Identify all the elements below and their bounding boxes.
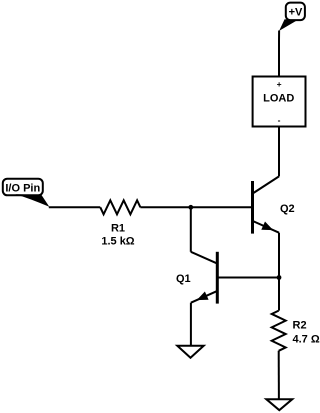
wire R1 to Q2 base: [140, 206, 252, 208]
svg-text:4.7 Ω: 4.7 Ω: [293, 333, 320, 345]
wire Q1 base to node B: [217, 277, 279, 279]
svg-text:-: -: [278, 115, 281, 125]
svg-text:I/O Pin: I/O Pin: [5, 182, 40, 194]
transistor Q1: [176, 252, 217, 304]
wire Q2 emitter to node B: [278, 233, 280, 311]
wire LOAD to Q2 collector: [278, 127, 280, 177]
svg-text:+: +: [277, 79, 282, 89]
flag I/O Pin: [3, 179, 50, 207]
wire R2 to ground: [278, 351, 280, 400]
node B: [277, 275, 282, 280]
svg-text:LOAD: LOAD: [263, 93, 294, 105]
transistor Q2: [253, 176, 295, 233]
flag +V: [279, 3, 305, 31]
svg-text:Q1: Q1: [176, 273, 191, 285]
svg-text:R2: R2: [293, 319, 307, 331]
ground (under Q1): [177, 346, 203, 358]
wire +V to LOAD: [278, 31, 280, 78]
svg-text:Q2: Q2: [280, 203, 295, 215]
wire I/O Pin to R1: [49, 206, 101, 208]
wire node A to Q1 collector: [190, 207, 192, 252]
svg-text:1.5 kΩ: 1.5 kΩ: [101, 235, 134, 247]
svg-text:+V: +V: [289, 6, 303, 18]
svg-text:R1: R1: [111, 223, 125, 235]
ground (under R2): [266, 399, 292, 410]
resistor R1: [100, 200, 140, 247]
wire Q1 emitter to ground: [190, 303, 192, 346]
load LOAD: [253, 77, 306, 127]
resistor R2: [272, 311, 320, 351]
node A: [188, 205, 193, 210]
